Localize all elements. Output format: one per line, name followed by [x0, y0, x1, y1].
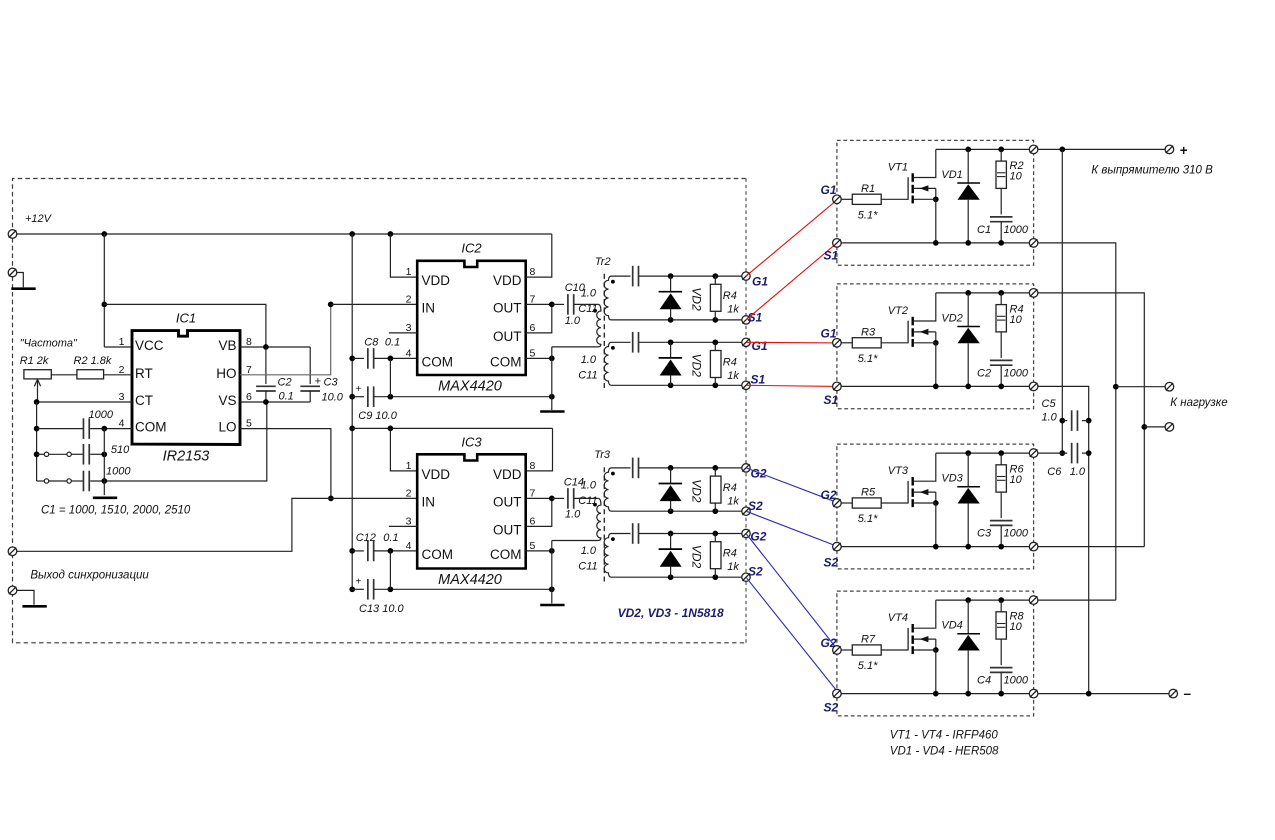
pin 5 label IC2 [530, 347, 536, 359]
svg-text:5.1*: 5.1* [858, 660, 878, 672]
svg-text:S1: S1 [751, 372, 766, 386]
svg-text:R1: R1 [861, 183, 875, 195]
label R1 [861, 183, 875, 195]
label R7 [861, 634, 876, 646]
svg-text:0.1: 0.1 [279, 391, 294, 403]
svg-text:COM: COM [490, 354, 522, 369]
label К выпрямителю 310 В [1091, 165, 1213, 177]
wire IC2 pin8 VDD to +12V [526, 234, 552, 277]
capacitor C11 1.0 (G1/S1 342) [612, 332, 743, 353]
wire bottom rail section VT2 [841, 384, 1033, 390]
wire Tr3 primary return [551, 541, 553, 551]
polarity dot Tr3 primary [593, 503, 597, 507]
svg-text:5.1*: 5.1* [858, 210, 878, 222]
label 1.0 C11 (G2/S2 468) [581, 479, 597, 491]
svg-text:G1: G1 [752, 339, 768, 353]
wire IC3 COM pin5 [526, 548, 555, 554]
wire bus V1 (+310V) [1059, 149, 1065, 456]
svg-text:VD4: VD4 [941, 620, 962, 632]
wire HO pin7 to IC2 IN [240, 304, 331, 374]
wire VCC to VB jumper [104, 304, 266, 347]
wire blue link G2 lower [746, 534, 838, 651]
resistor R1 5.1* [841, 194, 908, 204]
capacitor C1 row A 1000 [37, 418, 132, 439]
transformer secondary winding (G2/S2 534) [604, 534, 613, 578]
pin name VDD right IC2 [493, 273, 522, 288]
capacitor C10 1.0 [552, 294, 598, 315]
svg-text:C11: C11 [578, 303, 597, 315]
wire blue link S2 lower [746, 577, 839, 693]
svg-text:1000: 1000 [1004, 367, 1029, 379]
label 1.0 (C5) [1042, 412, 1058, 424]
wire sync common to ground [17, 590, 34, 604]
label VT1 [888, 162, 908, 174]
svg-text:S1: S1 [824, 393, 839, 407]
ground (IC2) [540, 410, 564, 413]
wire VB pin8 [240, 344, 310, 350]
ground (cap bank) [93, 496, 117, 499]
svg-text:VCC: VCC [135, 338, 164, 353]
svg-text:Tr2: Tr2 [595, 256, 611, 268]
resistor R6 10 [996, 453, 1006, 518]
resistor R4 1k (G2/S2 468) [710, 468, 721, 511]
terminal G1 section VT2 [833, 339, 842, 348]
svg-text:+: + [356, 577, 362, 588]
svg-text:R4: R4 [723, 290, 737, 302]
svg-text:4: 4 [406, 347, 412, 359]
label R4 (G1/S1 276) [723, 290, 737, 302]
label К нагрузке [1170, 397, 1227, 409]
label 1000 (C3) [1004, 528, 1029, 540]
svg-text:R4: R4 [723, 548, 737, 560]
wire LO pin5 down [240, 429, 331, 499]
label R1 2k [20, 355, 49, 367]
diode VD3 (HER508) [957, 453, 980, 546]
label 1000 (C2) [1004, 367, 1029, 379]
svg-text:R4: R4 [723, 356, 737, 368]
label S1 (section VT2) [824, 393, 839, 407]
pin name VDD left IC2 [422, 273, 451, 288]
pin name CT [135, 393, 153, 408]
label G2 (G2/S2 534) [750, 530, 766, 544]
pin name OUT right IC3 [493, 522, 522, 537]
transformer Tr3 primary winding [552, 498, 601, 540]
svg-text:1k: 1k [727, 370, 739, 382]
svg-text:RT: RT [135, 366, 153, 381]
label C11 (G1/S1 276) [578, 303, 597, 315]
wire load output 2 [1144, 426, 1165, 428]
capacitor C11 1.0 (G2/S2 468) [612, 458, 743, 479]
terminal G1 (G1/S1 342) [742, 338, 750, 346]
terminal G2 (G2/S2 534) [742, 529, 750, 537]
label VT3 [888, 465, 909, 477]
label 1.0 (C14) [565, 509, 581, 521]
svg-text:C11: C11 [578, 561, 597, 573]
svg-text:VT2: VT2 [888, 305, 908, 317]
pin name IN left IC3 [422, 494, 436, 509]
label 10 (R6) [1010, 474, 1023, 486]
wire red link G1 lower [746, 341, 838, 344]
svg-text:–: – [1184, 686, 1192, 701]
svg-text:VT4: VT4 [888, 612, 908, 624]
pin 7 label IC3 [530, 487, 536, 499]
wire +12V jog to IC3 [352, 426, 552, 432]
capacitor C3 1000 [990, 521, 1013, 547]
pin 3 label IC3 [406, 515, 412, 527]
label 0.1 (C2) [279, 391, 294, 403]
svg-text:S2: S2 [748, 565, 763, 579]
svg-text:C13 10.0: C13 10.0 [359, 603, 405, 615]
label C3 [324, 377, 339, 389]
wire sync output [17, 498, 331, 551]
resistor R8 10 [996, 600, 1006, 665]
wire VDD feed IC3 pin1 [390, 428, 417, 471]
svg-text:IC3: IC3 [461, 435, 482, 450]
svg-text:C11: C11 [578, 369, 597, 381]
label VD2 [941, 312, 962, 324]
pin name VDD left IC3 [422, 467, 451, 482]
svg-text:G1: G1 [821, 183, 837, 197]
polarity dot secondary (G2/S2 468) [611, 472, 615, 476]
svg-text:COM: COM [422, 354, 454, 369]
label 1k (G2/S2 468) [727, 495, 739, 507]
label 1.0 (C10) [565, 315, 581, 327]
terminal S2 section VT4 [833, 689, 842, 698]
dashed enclosure of control module [13, 179, 747, 643]
svg-text:+: + [1180, 143, 1188, 158]
label 1000 (row A) [89, 409, 114, 421]
label 1k (G1/S1 276) [727, 304, 739, 316]
resistor R4 1k (G1/S1 276) [710, 276, 721, 320]
label C4 [977, 675, 991, 687]
pin name OUT right IC2 [493, 300, 522, 315]
pin name RT [135, 366, 153, 381]
dashed box section VT2 [837, 284, 1034, 409]
resistor R2 10 [996, 149, 1006, 214]
wire load output 1 [1116, 386, 1165, 388]
label 1000 (C4) [1004, 675, 1029, 687]
svg-text:1k: 1k [727, 561, 739, 573]
wire CT pin3 [34, 399, 132, 405]
dashed box section VT3 [837, 444, 1034, 569]
resistor R2 1.8k [77, 370, 104, 379]
pin 2 label IC2 [406, 293, 412, 305]
svg-text:MAX4420: MAX4420 [438, 572, 502, 588]
label 1.0 (C6) [1070, 466, 1086, 478]
svg-text:VDD: VDD [493, 467, 522, 482]
svg-text:COM: COM [490, 547, 522, 562]
pin 5 label IC3 [530, 540, 536, 552]
pin 4 label IC1 [119, 418, 125, 430]
capacitor C12 0.1 [352, 541, 417, 562]
wire IC2 COM pin5 [526, 356, 555, 362]
transistor VT4 (IRFP460) [908, 600, 939, 694]
transformer secondary winding (G1/S1 276) [604, 276, 613, 320]
label C9 10.0 [358, 410, 397, 422]
wire secondary bottom (G2/S2 468) [613, 508, 742, 514]
svg-text:1: 1 [406, 460, 412, 472]
terminal S2 (G2/S2 534) [742, 573, 750, 581]
wire VT4 source to minus [1038, 691, 1169, 697]
svg-text:VD2: VD2 [689, 354, 703, 378]
label R3 [861, 327, 876, 339]
label VD2 rotated (G1/S1 276) [689, 287, 703, 311]
pin 4 label IC3 [406, 540, 412, 552]
svg-text:1k: 1k [727, 495, 739, 507]
pin 7 label IC2 [530, 293, 536, 305]
transformer secondary winding (G1/S1 342) [604, 342, 613, 385]
svg-text:+: + [356, 384, 362, 395]
label S2 (G2/S2 534) [748, 565, 763, 579]
driver IC2 body (MAX4420) [417, 261, 526, 375]
svg-text:IN: IN [422, 494, 436, 509]
terminal S1 section VT2 [833, 382, 842, 391]
svg-text:3: 3 [406, 322, 412, 334]
pin name COM left IC2 [422, 354, 454, 369]
svg-text:1.0: 1.0 [1070, 466, 1086, 478]
label G2 (section VT4) [821, 636, 837, 650]
terminal G2 section VT4 [833, 646, 842, 655]
label C11 (G2/S2 534) [578, 561, 597, 573]
label 10 (R8) [1010, 621, 1023, 633]
label C5 [1042, 398, 1057, 410]
label C2 [977, 367, 991, 379]
svg-text:COM: COM [422, 547, 454, 562]
svg-text:OUT: OUT [493, 300, 522, 315]
svg-text:C9 10.0: C9 10.0 [358, 410, 397, 422]
transformer secondary winding (G2/S2 468) [604, 468, 613, 511]
svg-text:8: 8 [246, 336, 252, 348]
label 1.0 C11 (G1/S1 342) [581, 354, 597, 366]
svg-text:1: 1 [119, 336, 125, 348]
label R2 [1010, 160, 1024, 172]
label IR2153 [163, 449, 210, 465]
svg-text:VDD: VDD [493, 273, 522, 288]
svg-text:C1 = 1000, 1510, 2000, 2510: C1 = 1000, 1510, 2000, 2510 [41, 505, 191, 517]
wire red link S1 upper [746, 243, 837, 320]
label S2 (section VT4) [824, 701, 839, 715]
pin name VCC [135, 338, 164, 353]
dashed box section VT1 [837, 140, 1034, 265]
wire CT bus down [34, 402, 40, 481]
wire cap bank to ground [103, 429, 105, 496]
label VD1-VD4 types [890, 746, 999, 758]
label 0.1 (C12) [383, 532, 398, 544]
wire +12V vertical bus [349, 234, 355, 592]
svg-text:+: + [315, 376, 322, 388]
svg-text:5: 5 [530, 540, 536, 552]
terminal S2 section VT3 [833, 542, 842, 551]
transistor VT1 (IRFP460) [908, 149, 939, 243]
svg-text:COM: COM [135, 420, 167, 435]
label VD2 rotated (G2/S2 534) [689, 545, 703, 569]
label 5.1* (R7) [858, 660, 878, 672]
capacitor C2 1000 [990, 360, 1013, 386]
label Tr3 [594, 449, 611, 461]
pin name OUT right IC3 [493, 494, 522, 509]
svg-text:8: 8 [530, 460, 536, 472]
label S1 (section VT1) [824, 249, 839, 263]
label S1 (G1/S1 342) [751, 372, 766, 386]
ground (input) [11, 287, 35, 290]
label IC2 [461, 241, 482, 256]
svg-text:2: 2 [406, 293, 412, 305]
svg-text:IN: IN [422, 300, 436, 315]
pin 2 label IC1 [119, 364, 125, 376]
resistor R7 5.1* [841, 645, 908, 655]
wire C12/C13 common link [389, 551, 391, 589]
svg-text:VT1: VT1 [888, 162, 908, 174]
svg-text:R7: R7 [861, 634, 876, 646]
pin 6 label IC1 [246, 391, 252, 403]
svg-text:7: 7 [246, 364, 252, 376]
label VD1 [941, 169, 962, 181]
label + (C9) [356, 384, 362, 395]
terminal load 1 [1165, 382, 1174, 391]
label R8 [1010, 611, 1025, 623]
label C8 [364, 337, 379, 349]
ground (IC3) [540, 604, 564, 607]
svg-text:C2: C2 [977, 367, 991, 379]
terminal S1 section VT1 [833, 239, 842, 248]
label 510 (row B) [111, 444, 130, 456]
terminal S1 (G1/S1 342) [742, 381, 750, 389]
pin 5 label IC1 [246, 418, 252, 430]
svg-text:C5: C5 [1042, 398, 1057, 410]
wire VCC feed (pin1 IC1) [101, 234, 132, 347]
svg-text:C11: C11 [578, 495, 597, 507]
svg-text:10: 10 [1010, 474, 1023, 486]
resistor R3 5.1* [841, 338, 908, 348]
wire red link G1 upper [746, 200, 838, 277]
terminal drain output VT4 [1029, 596, 1038, 605]
wire bottom rail section VT4 [841, 691, 1033, 697]
wire to IC2 IN pin2 [331, 303, 418, 305]
pin name OUT right IC2 [493, 329, 522, 344]
wire bottom rail section VT3 [841, 544, 1033, 550]
wire VT1 source to node [1038, 243, 1119, 600]
svg-text:VD1: VD1 [941, 169, 962, 181]
svg-text:5: 5 [246, 418, 252, 430]
svg-text:OUT: OUT [493, 329, 522, 344]
label VT1-VT4 types [890, 730, 999, 742]
wire C8/C9 common link [389, 358, 391, 396]
svg-text:G2: G2 [751, 466, 767, 480]
svg-text:IC2: IC2 [461, 241, 482, 256]
svg-text:G1: G1 [752, 274, 768, 288]
svg-text:7: 7 [530, 487, 536, 499]
label C6 [1047, 466, 1062, 478]
svg-text:C3: C3 [324, 377, 339, 389]
svg-text:VD2: VD2 [689, 545, 703, 569]
label MAX4420 (IC3) [438, 572, 502, 588]
pin 1 label IC1 [119, 336, 125, 348]
label G2 (G2/S2 468) [751, 466, 767, 480]
resistor R5 5.1* [841, 498, 908, 508]
svg-text:R3: R3 [861, 327, 876, 339]
svg-text:1000: 1000 [106, 466, 131, 478]
svg-text:C6: C6 [1047, 466, 1062, 478]
terminal G2 (G2/S2 468) [742, 464, 750, 472]
capacitor C3 10.0 [300, 347, 320, 402]
label Частота [20, 338, 78, 350]
svg-text:S2: S2 [748, 499, 763, 513]
svg-text:VD2: VD2 [941, 312, 962, 324]
label G1 (section VT2) [821, 327, 837, 341]
svg-text:IR2153: IR2153 [163, 449, 210, 465]
label VD3 [941, 473, 963, 485]
pin 3 label IC2 [406, 322, 412, 334]
svg-text:10: 10 [1010, 314, 1023, 326]
svg-text:К выпрямителю 310 В: К выпрямителю 310 В [1091, 165, 1213, 177]
terminal drain output VT2 [1029, 289, 1038, 298]
pin 1 label IC3 [406, 460, 412, 472]
svg-text:VT3: VT3 [888, 465, 909, 477]
svg-text:2: 2 [406, 487, 412, 499]
svg-text:C1: C1 [977, 224, 991, 236]
svg-text:10: 10 [1010, 621, 1023, 633]
pin name LO [218, 420, 236, 435]
svg-text:1.0: 1.0 [565, 509, 581, 521]
svg-text:VD1 - VD4 - HER508: VD1 - VD4 - HER508 [890, 746, 999, 758]
terminal drain output VT1 [1029, 145, 1038, 154]
pin name HO [216, 366, 236, 381]
label 1.0 C11 (G1/S1 276) [581, 288, 597, 300]
label R5 [861, 487, 876, 499]
svg-text:+12V: +12V [25, 213, 53, 225]
node +12V label [25, 213, 53, 225]
label 0.1 (C8) [385, 337, 400, 349]
label C11 (G1/S1 342) [578, 369, 597, 381]
wire VS pin6 [240, 399, 310, 405]
wire VT4 drain to node [1038, 599, 1116, 601]
svg-text:C8: C8 [364, 337, 379, 349]
svg-text:OUT: OUT [493, 522, 522, 537]
polarity dot Tr2 primary [593, 309, 597, 313]
label VD2 VD3 type [618, 606, 724, 620]
terminal source output VT2 [1029, 382, 1038, 391]
terminal G2 section VT3 [833, 499, 842, 508]
label R4 (G2/S2 468) [723, 482, 737, 494]
capacitor C6 1.0 on VT3 drain line [1038, 443, 1089, 464]
terminal G1 section VT1 [833, 195, 842, 204]
op-amp U? IC1 body (IR2153) [132, 331, 240, 445]
svg-text:VDD: VDD [422, 467, 451, 482]
diode VD2 (G1/S1 276) [659, 276, 683, 320]
pin 3 stub IC2 [389, 332, 417, 334]
capacitor C8 0.1 [352, 348, 417, 369]
wire +12V rail [17, 231, 552, 237]
wire row C to VS [90, 402, 267, 484]
label 5.1* (R3) [858, 353, 878, 365]
label + [1180, 143, 1188, 158]
svg-text:R1 2k: R1 2k [20, 355, 49, 367]
svg-text:VS: VS [218, 393, 236, 408]
label C3 [977, 528, 992, 540]
svg-text:VD2, VD3 - 1N5818: VD2, VD3 - 1N5818 [618, 606, 724, 620]
terminal + output [1165, 145, 1174, 154]
terminal sync common [8, 586, 17, 595]
wiper arrow of R1 [34, 379, 40, 402]
label C10 [565, 282, 586, 294]
pin 6 label IC3 [530, 515, 536, 527]
svg-text:S2: S2 [824, 701, 839, 715]
svg-text:Tr3: Tr3 [594, 449, 611, 461]
pin 3 stub IC3 [389, 525, 417, 527]
label S2 (G2/S2 468) [748, 499, 763, 513]
terminal sync output [8, 547, 17, 556]
svg-text:MAX4420: MAX4420 [438, 379, 502, 395]
